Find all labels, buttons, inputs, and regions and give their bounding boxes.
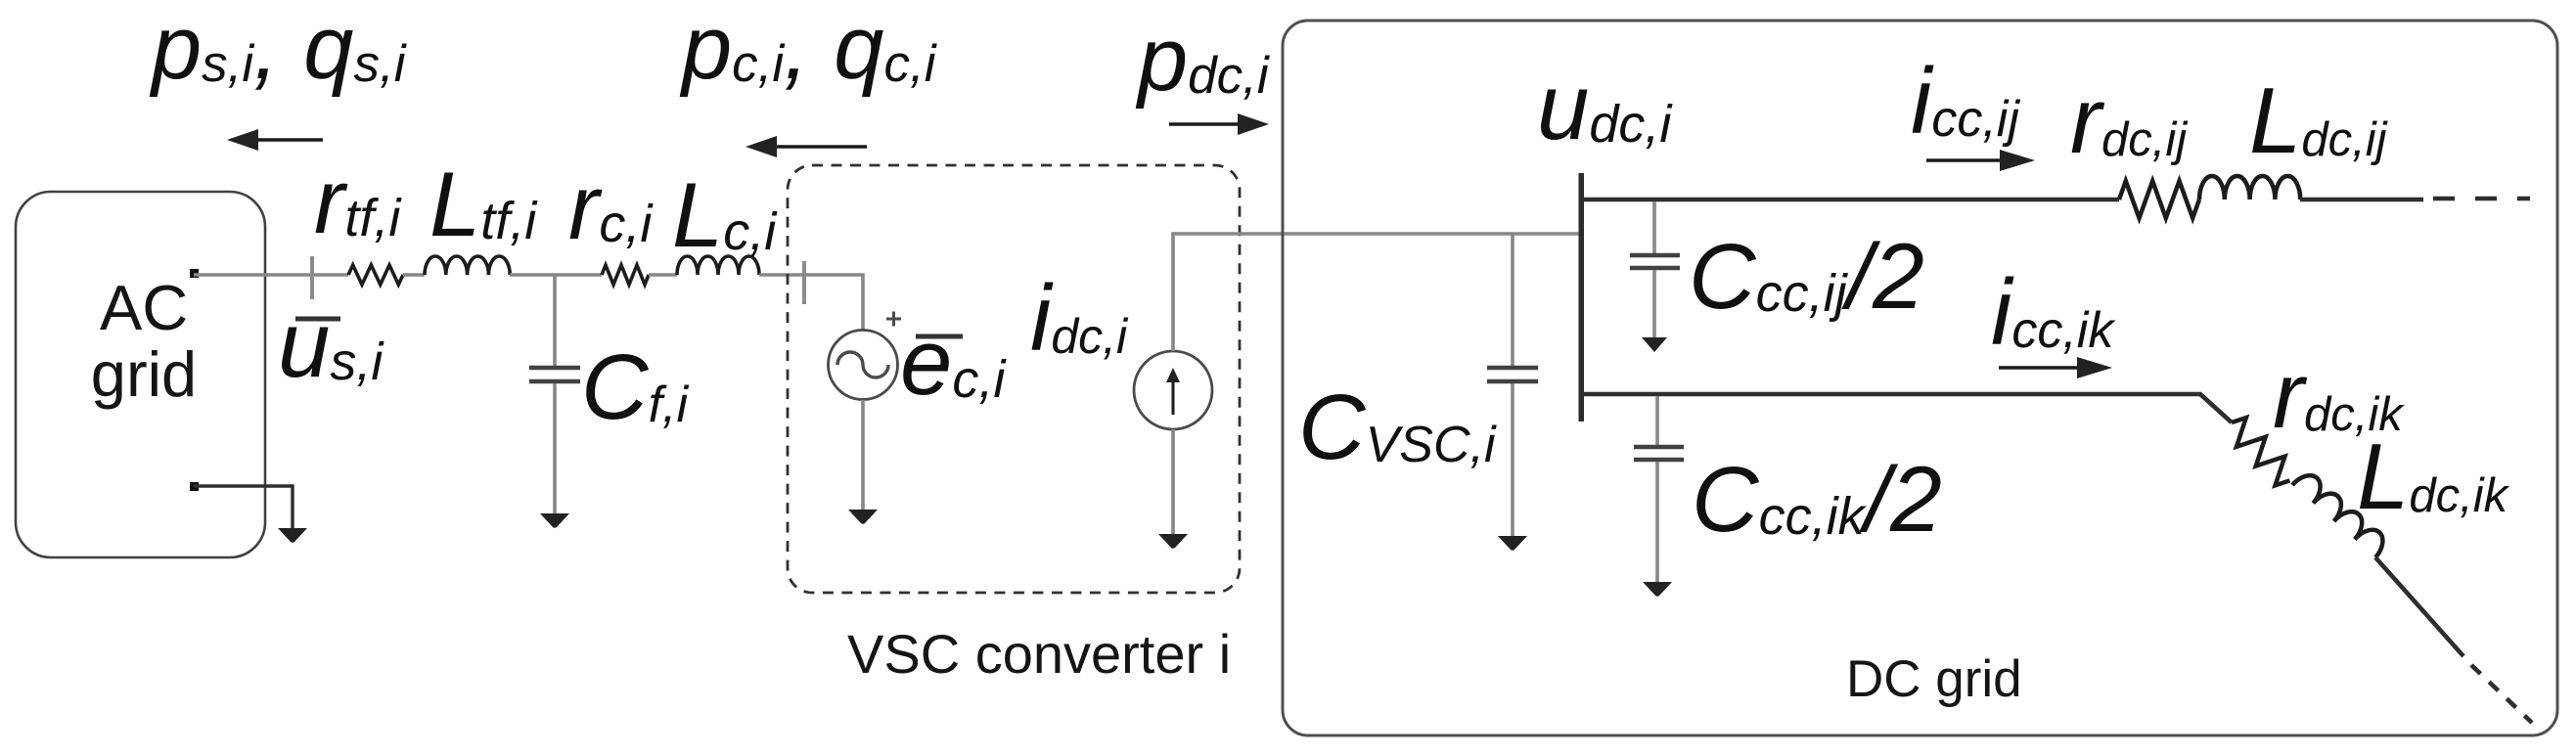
ground below C_VSC,i (1498, 536, 1527, 551)
ground below AC grid (278, 528, 307, 543)
resistor r_dc,ij (2119, 181, 2199, 218)
wire above current source to DC grid (1173, 234, 1579, 351)
arrow: p_c,i left (771, 145, 867, 149)
capacitor C_cc,ik/2 stem (1655, 396, 1659, 445)
svg-text:pdc,i: pdc,i (1135, 10, 1270, 110)
wire (649, 273, 677, 277)
ground below C_f,i (540, 513, 569, 528)
svg-text:VSC converter i: VSC converter i (847, 623, 1231, 685)
label u_s,i with overline (295, 317, 340, 322)
VSC converter dashed box (788, 165, 1240, 593)
arrow: p_s,i left (252, 138, 323, 142)
svg-text:us,i: us,i (278, 292, 384, 397)
wire after L_dc,ik diagonal (2375, 557, 2463, 656)
arrow: i_cc,ij right (1926, 158, 2006, 162)
svg-text:grid: grid (91, 338, 197, 410)
arrow: i_cc,ik right (1999, 366, 2082, 370)
capacitor C_cc,ik/2 lower stem (1655, 462, 1659, 585)
svg-text:rc,i: rc,i (568, 155, 654, 258)
node A: upper PCC dot (190, 269, 199, 278)
svg-text:AC: AC (100, 272, 188, 343)
voltage source e_c,i circle (829, 331, 898, 400)
wire: L_c,i into VSC box, corner down to e_c,i source (759, 275, 863, 331)
capacitor C_cc,ik/2 plates (1634, 445, 1684, 450)
capacitor C_VSC,i lower stem (1511, 383, 1514, 539)
ground below e_c,i (848, 510, 878, 524)
inductor L_c,i (677, 256, 759, 275)
ground below C_cc,ik/2 (1643, 582, 1672, 597)
dashed continuation of top DC line (2433, 197, 2530, 201)
svg-text:icc,ij: icc,ij (1911, 49, 2020, 154)
capacitor C_cc,ij/2 lower stem with arrow (1652, 270, 1656, 338)
svg-text:ps,i, qs,i: ps,i, qs,i (149, 0, 407, 98)
arrow inside current source (1172, 379, 1175, 415)
node tick u_s,i measurement point (310, 256, 314, 299)
wire: lower dot to ground (194, 486, 293, 528)
svg-text:udc,i: udc,i (1537, 55, 1673, 159)
plus polarity mark (886, 312, 901, 327)
node B: lower AC grid dot (190, 482, 199, 491)
wire (403, 273, 425, 277)
svg-text:Ldc,ik: Ldc,ik (2357, 424, 2510, 529)
ground below i_dc,i (1158, 534, 1188, 549)
inductor L_tf,i (425, 256, 510, 275)
capacitor C_VSC,i stem (1511, 234, 1514, 366)
inductor L_dc,ik (diagonal) (2292, 468, 2390, 557)
resistor r_dc,ik (diagonal) (2222, 413, 2299, 490)
inductor L_dc,ij (2199, 176, 2300, 200)
svg-text:Ltf,i: Ltf,i (429, 153, 538, 255)
wire: bottom DC line from busbar (1582, 394, 2232, 422)
svg-text:rdc,ij: rdc,ij (2070, 68, 2189, 173)
svg-text:Ccc,ik/2: Ccc,ik/2 (1692, 448, 1942, 552)
DC grid box (1283, 21, 2557, 735)
node u_dc,i busbar (1579, 173, 1585, 422)
capacitor C_f,i lower stem (553, 383, 557, 516)
wire below current source (1171, 429, 1175, 537)
svg-text:ec,i: ec,i (900, 310, 1007, 415)
arrow: p_dc,i right (1169, 122, 1243, 126)
wire below source (861, 400, 865, 512)
svg-text:idc,i: idc,i (1030, 266, 1129, 371)
capacitor C_cc,ij/2 plates (1630, 253, 1680, 258)
wire after L_dc,ij (2300, 198, 2423, 202)
capacitor C_f,i plates (529, 366, 580, 371)
svg-text:Cf,i: Cf,i (581, 335, 690, 439)
svg-text:DC grid: DC grid (1846, 650, 2022, 708)
svg-text:Lc,i: Lc,i (672, 163, 778, 266)
sine wave inside source (837, 352, 888, 377)
svg-text:pc,i, qc,i: pc,i, qc,i (679, 0, 937, 98)
svg-text:rtf,i: rtf,i (314, 150, 402, 252)
svg-text:CVSC,i: CVSC,i (1298, 376, 1497, 479)
dashed diagonal continuation (2471, 665, 2532, 723)
node tick converter terminal (802, 261, 806, 304)
wire: L_tf,i to r_c,i with node (510, 273, 602, 277)
svg-text:Ccc,ij/2: Ccc,ij/2 (1689, 225, 1924, 329)
AC grid box (16, 192, 265, 557)
wire: top DC line from busbar (1582, 198, 2119, 202)
svg-text:Ldc,ij: Ldc,ij (2249, 68, 2389, 173)
current source i_dc,i circle (1134, 351, 1212, 429)
label e_c,i with overline (916, 334, 963, 339)
capacitor C_f,i stem (553, 275, 557, 366)
resistor r_tf,i (348, 265, 403, 285)
resistor r_c,i (602, 265, 649, 285)
capacitor C_cc,ij/2 stem (1652, 201, 1656, 253)
svg-text:icc,ik: icc,ik (1991, 260, 2116, 365)
capacitor C_VSC,i plates (1487, 366, 1538, 371)
wire: AC grid to r_tf,i (194, 273, 348, 277)
